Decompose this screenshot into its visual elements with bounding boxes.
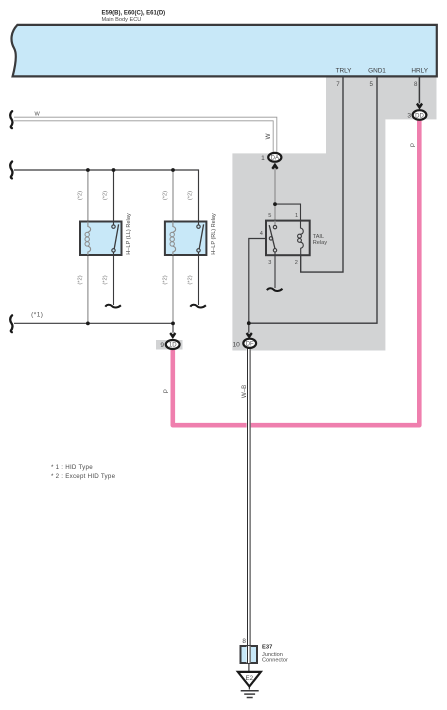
svg-text:(*2): (*2) bbox=[163, 275, 169, 284]
svg-text:P: P bbox=[410, 143, 417, 147]
svg-text:(*2): (*2) bbox=[78, 275, 84, 284]
svg-text:E59(B), E60(C), E61(D): E59(B), E60(C), E61(D) bbox=[102, 10, 166, 16]
svg-text:3: 3 bbox=[407, 113, 411, 120]
svg-text:10: 10 bbox=[232, 341, 240, 348]
svg-text:9: 9 bbox=[160, 342, 164, 349]
svg-text:8: 8 bbox=[242, 638, 246, 645]
svg-text:H–LP (RL) Relay: H–LP (RL) Relay bbox=[211, 213, 217, 255]
svg-text:DD: DD bbox=[415, 113, 424, 119]
svg-text:* 2 : Except HID Type: * 2 : Except HID Type bbox=[51, 473, 116, 480]
svg-text:4: 4 bbox=[260, 231, 263, 237]
svg-text:5: 5 bbox=[268, 213, 271, 219]
svg-text:(*2): (*2) bbox=[188, 191, 194, 200]
svg-text:3: 3 bbox=[268, 260, 271, 266]
svg-text:Relay: Relay bbox=[313, 240, 328, 246]
svg-text:E2: E2 bbox=[246, 675, 254, 682]
svg-text:(*2): (*2) bbox=[103, 191, 109, 200]
svg-text:* 1 : HID Type: * 1 : HID Type bbox=[51, 464, 93, 471]
svg-text:GND1: GND1 bbox=[368, 68, 386, 75]
svg-text:Connector: Connector bbox=[262, 658, 288, 664]
svg-text:(*2): (*2) bbox=[103, 275, 109, 284]
svg-text:DF: DF bbox=[246, 342, 254, 348]
svg-text:W: W bbox=[35, 111, 41, 117]
svg-text:TRLY: TRLY bbox=[336, 68, 353, 75]
svg-text:2: 2 bbox=[295, 260, 298, 266]
svg-text:P: P bbox=[163, 389, 170, 393]
svg-text:1: 1 bbox=[295, 213, 298, 219]
svg-text:E37: E37 bbox=[262, 645, 272, 651]
svg-text:(*2): (*2) bbox=[78, 191, 84, 200]
svg-text:1D: 1D bbox=[169, 343, 177, 349]
svg-text:HRLY: HRLY bbox=[411, 68, 428, 75]
svg-text:(*2): (*2) bbox=[188, 275, 194, 284]
svg-text:H–LP (LL) Relay: H–LP (LL) Relay bbox=[126, 213, 132, 255]
svg-text:Main Body ECU: Main Body ECU bbox=[102, 17, 142, 23]
svg-text:(*1): (*1) bbox=[31, 312, 43, 319]
svg-text:(*2): (*2) bbox=[163, 191, 169, 200]
svg-text:5: 5 bbox=[370, 81, 374, 88]
svg-text:8: 8 bbox=[414, 81, 418, 88]
svg-text:W–B: W–B bbox=[241, 385, 248, 398]
svg-text:7: 7 bbox=[336, 81, 340, 88]
svg-text:1: 1 bbox=[261, 155, 265, 162]
svg-text:W: W bbox=[265, 133, 272, 139]
svg-text:DA: DA bbox=[271, 155, 279, 161]
